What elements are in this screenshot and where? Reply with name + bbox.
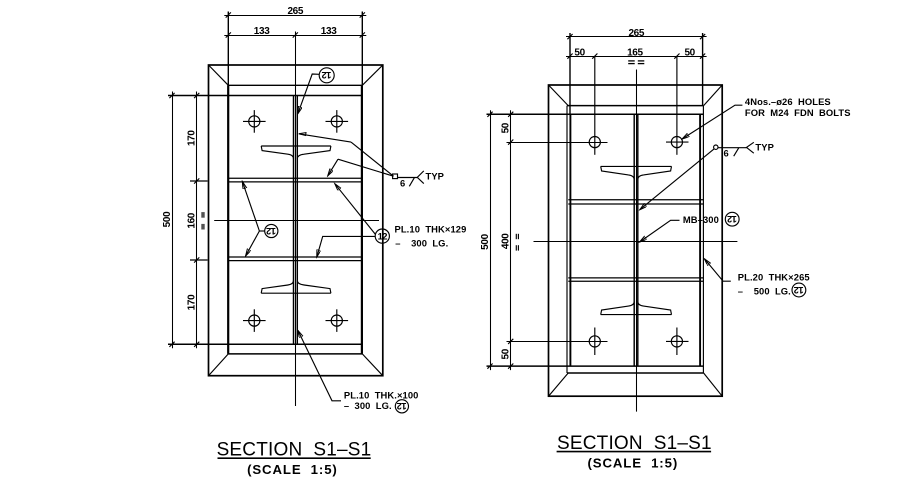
equality marks beside 400 dim bbox=[516, 234, 518, 251]
outer base plate outline (pedestal) left view bbox=[209, 65, 383, 376]
leader fork from mid-left circle to both stiffeners bbox=[242, 182, 264, 256]
bolt hole top-right with crosshair bbox=[326, 110, 349, 133]
svg-text:TYP: TYP bbox=[755, 142, 774, 153]
equality marks beside 160 dim bbox=[202, 212, 204, 229]
svg-text:12: 12 bbox=[266, 226, 276, 237]
stiffener plate PL10 upper (double line) left view bbox=[228, 178, 362, 182]
svg-text:50: 50 bbox=[500, 122, 511, 133]
svg-text:165: 165 bbox=[627, 47, 643, 58]
svg-text:– 300 LG.: – 300 LG. bbox=[395, 238, 448, 249]
svg-text:12: 12 bbox=[727, 214, 737, 225]
horizontal centreline left view bbox=[214, 220, 379, 222]
svg-text:50: 50 bbox=[574, 47, 585, 58]
bolt hole top-left with crosshair bbox=[243, 110, 266, 133]
svg-text:12: 12 bbox=[397, 401, 407, 412]
svg-text:(SCALE 1:5): (SCALE 1:5) bbox=[587, 456, 678, 471]
horizontal centreline right view bbox=[534, 241, 738, 243]
base plate top edge (with extension) right view bbox=[487, 113, 704, 115]
extension line through top-left bolt (50 dim) bbox=[507, 142, 608, 144]
inner plate outline right view (top and bottom edges) bbox=[567, 106, 703, 373]
svg-text:– 300 LG.: – 300 LG. bbox=[344, 400, 392, 411]
label 4Nos. holes for M24 FDN bolts bbox=[682, 105, 742, 139]
weld symbol circle 12 (mid-left, rotated) left view bbox=[265, 224, 278, 237]
svg-text:133: 133 bbox=[321, 26, 337, 37]
svg-text:160: 160 bbox=[187, 212, 198, 228]
bolt hole bottom-left with crosshair, right view bbox=[589, 328, 600, 356]
dimension 50/165/50 (top, right view) bbox=[566, 54, 707, 59]
fillet weld symbol 6 TYP (left view) bbox=[299, 134, 424, 187]
callout circle 12 with PL10 THKx129 (mid-right) left view bbox=[375, 229, 389, 243]
svg-text:400: 400 bbox=[500, 233, 511, 249]
svg-text:265: 265 bbox=[628, 28, 644, 39]
svg-text:TYP: TYP bbox=[426, 171, 445, 182]
dimension 50/400/50 line (left side, right view) bbox=[508, 110, 513, 370]
svg-text:PL.10 THK×129: PL.10 THK×129 bbox=[395, 224, 467, 235]
equality marks = = below 165 bbox=[628, 61, 644, 64]
beam flange section (tee) lower, right view bbox=[601, 301, 672, 314]
svg-text:265: 265 bbox=[287, 6, 303, 17]
svg-text:FOR M24 FDN BOLTS: FOR M24 FDN BOLTS bbox=[745, 107, 851, 118]
svg-text:133: 133 bbox=[254, 26, 270, 37]
column web (double line) left view bbox=[294, 96, 298, 345]
label PL.10 THK.x100 - 300 LG. with circle 12 (bottom, left view) bbox=[298, 330, 341, 400]
svg-text:500: 500 bbox=[480, 233, 491, 249]
svg-text:50: 50 bbox=[500, 348, 511, 359]
vertical centreline right view bbox=[636, 70, 638, 412]
svg-text:4Nos.–ø26 HOLES: 4Nos.–ø26 HOLES bbox=[745, 96, 831, 107]
small tick at weld leader start on web bbox=[299, 133, 306, 136]
side plate PL10 right (thick edge line) bbox=[361, 85, 363, 354]
dimension 265 (top, left view) bbox=[224, 12, 366, 86]
stiffener plate upper (double line) right view bbox=[568, 200, 703, 204]
svg-text:50: 50 bbox=[684, 47, 695, 58]
side plate PL10 left (thick edge line) bbox=[227, 85, 229, 354]
svg-text:– 500 LG.: – 500 LG. bbox=[738, 285, 791, 296]
bolt hole top-right with crosshair, right view bbox=[666, 56, 689, 155]
column web (double line) right view bbox=[634, 114, 638, 366]
svg-text:500: 500 bbox=[162, 211, 173, 227]
leader from PL10 circle to lower stiffener bbox=[317, 236, 375, 257]
chamfer corner diagonals left view bbox=[209, 65, 383, 376]
base plate bottom edge (with extension) right view bbox=[487, 365, 704, 367]
dimension 500 (left side, left view) bbox=[169, 92, 174, 349]
side plate PL20 left (thin outer + thick inner line) right view bbox=[566, 106, 568, 373]
svg-text:PL.20 THK×265: PL.20 THK×265 bbox=[738, 271, 810, 282]
extension line through bottom-left bolt (50 dim) bbox=[507, 341, 608, 343]
svg-text:(SCALE 1:5): (SCALE 1:5) bbox=[247, 462, 338, 477]
beam flange section (tee) lower, left view bbox=[261, 280, 331, 293]
chamfer corner diagonals right view bbox=[549, 85, 723, 396]
base plate top edge PL (with extension to dims) left view bbox=[168, 95, 362, 97]
svg-text:170: 170 bbox=[187, 130, 198, 146]
svg-text:12: 12 bbox=[378, 230, 388, 241]
outer base plate outline (pedestal) right view bbox=[549, 85, 723, 396]
label MB-300 with circle 12 (rotated) bbox=[640, 220, 680, 242]
dimension 265 (top, right view) bbox=[566, 33, 707, 114]
bolt hole bottom-right with crosshair, right view bbox=[666, 328, 689, 356]
stiffener plate PL10 lower (double line) left view bbox=[228, 257, 362, 261]
side plate PL20 right (thin outer + thick inner line) right view bbox=[702, 106, 704, 373]
svg-text:6: 6 bbox=[724, 147, 729, 158]
weld symbol circle 12 (top, rotated) left view bbox=[319, 68, 334, 83]
svg-text:170: 170 bbox=[187, 294, 198, 310]
beam flange section (tee) upper, right view bbox=[601, 166, 672, 179]
dimension 170/160/170 line (left side, left view) bbox=[190, 92, 208, 349]
label PL.20 THKx265 - 500 LG. with circle 12 (rotated) bbox=[705, 259, 731, 281]
leader from top circle 12 to web bbox=[298, 74, 319, 114]
bolt hole bottom-right with crosshair bbox=[326, 309, 349, 332]
inner plate outline left view (top and bottom edges) bbox=[228, 85, 362, 354]
bolt hole bottom-left with crosshair bbox=[243, 309, 266, 332]
leader from PL10 circle to upper stiffener bbox=[335, 184, 376, 235]
base plate bottom edge PL (with extension to dims) left view bbox=[168, 343, 362, 345]
fillet weld symbol 6 TYP (right view) bbox=[640, 142, 754, 209]
vertical centreline left view bbox=[295, 32, 297, 407]
stiffener plate lower (double line) right view bbox=[568, 278, 703, 281]
svg-text:6: 6 bbox=[400, 177, 405, 188]
beam flange section (tee) upper, left view bbox=[261, 146, 331, 159]
svg-text:12: 12 bbox=[794, 285, 804, 296]
bolt hole top-left with crosshair, right view bbox=[589, 56, 600, 155]
dimension 133 / 133 (left view) bbox=[224, 32, 366, 37]
svg-text:12: 12 bbox=[322, 70, 332, 81]
svg-text:SECTION S1–S1: SECTION S1–S1 bbox=[217, 439, 372, 460]
svg-text:MB–300: MB–300 bbox=[683, 214, 719, 225]
dimension 500 (left side, right view) bbox=[487, 110, 492, 370]
